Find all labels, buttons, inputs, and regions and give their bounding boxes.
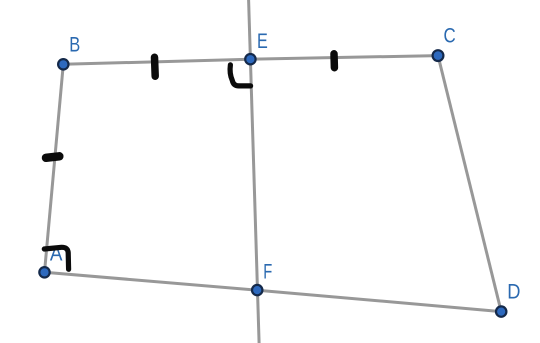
- point E: [245, 54, 255, 64]
- segment CD: [438, 56, 501, 312]
- transversal line through E and F: [249, 0, 260, 343]
- svg-text:D: D: [507, 280, 520, 303]
- tick mark on EC: [330, 54, 338, 68]
- right angle mark at E: [230, 65, 251, 86]
- right angle mark at A: [44, 247, 68, 269]
- segment BE: [63, 59, 250, 64]
- point C: [433, 50, 444, 61]
- segment BA: [45, 64, 64, 272]
- point A: [39, 267, 49, 277]
- svg-text:C: C: [444, 25, 456, 48]
- svg-text:E: E: [257, 30, 268, 53]
- svg-text:B: B: [69, 33, 80, 56]
- segment FD: [258, 290, 502, 311]
- svg-text:F: F: [263, 261, 272, 284]
- segment EC: [250, 56, 438, 60]
- tick mark on AB: [46, 156, 59, 158]
- segment AF: [45, 272, 258, 290]
- point D: [496, 306, 506, 316]
- point F: [252, 285, 262, 295]
- tick mark on BE: [151, 57, 159, 76]
- point B: [58, 59, 68, 69]
